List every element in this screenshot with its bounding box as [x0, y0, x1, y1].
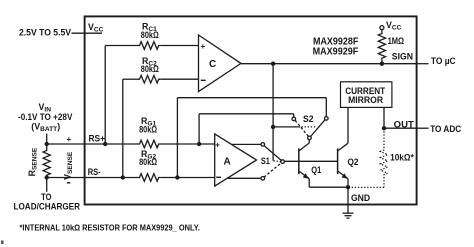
- svg-text:-0.1V TO +28V: -0.1V TO +28V: [18, 112, 73, 122]
- svg-text:GND: GND: [351, 193, 370, 203]
- svg-text:TO µC: TO µC: [431, 56, 456, 66]
- svg-text:SIGN: SIGN: [392, 52, 413, 62]
- resistor RG2: [138, 174, 161, 182]
- switch S2 dashed alternate: [295, 120, 308, 136]
- wire: RC2 left lead: [123, 78, 138, 80]
- VCC pullup circle terminal: [380, 26, 384, 30]
- switch S2 throw circle left: [292, 117, 296, 121]
- node RS+ / wire2: [197, 142, 201, 146]
- scan speck bottom-left: [1, 241, 4, 245]
- svg-text:OUT: OUT: [394, 120, 415, 130]
- wire: OUT to box edge: [384, 127, 416, 129]
- switch S2 pole circle: [308, 136, 312, 140]
- svg-text:+: +: [67, 135, 72, 144]
- wire: RC1 to amp C + input: [161, 45, 199, 47]
- svg-text:80kΩ: 80kΩ: [139, 125, 157, 135]
- dotted wire 10k to GND node: [350, 186, 385, 188]
- wire: RG2 to amp A - input: [161, 177, 215, 179]
- wire: SIGN lead outside box to uC: [416, 63, 429, 65]
- svg-text:1MΩ: 1MΩ: [388, 36, 405, 46]
- op-amp A: [215, 134, 257, 186]
- svg-text:LOAD/CHARGER: LOAD/CHARGER: [14, 201, 81, 211]
- svg-text:RS-: RS-: [88, 167, 101, 177]
- svg-text:A: A: [224, 157, 231, 168]
- Q1 emitter arrow: [303, 173, 309, 179]
- dotted control link to S1 pole: [274, 160, 281, 163]
- wire: RC2 to amp C - input: [161, 78, 199, 80]
- node VIN/RSENSE top: [45, 142, 49, 146]
- switch S2 throw circle right: [325, 117, 329, 121]
- node RS+ / RC1: [103, 142, 107, 146]
- wire: feedback RS- up to wire1: [176, 98, 178, 178]
- wire: RS- input wire: [47, 177, 138, 179]
- wire: amp A edge to S1 top throw: [232, 143, 262, 145]
- node SIGN / 1M: [380, 62, 384, 66]
- switch S2 blade (right throw to pole): [311, 120, 325, 137]
- svg-text:*INTERNAL 10kΩ RESISTOR FOR MA: *INTERNAL 10kΩ RESISTOR FOR MAX9929_ ONL…: [20, 223, 201, 233]
- resistor RC1: [138, 42, 161, 50]
- wire: control vertical from C output: [272, 64, 274, 161]
- svg-text:80kΩ: 80kΩ: [139, 157, 157, 167]
- transistor Q2: [337, 148, 339, 174]
- dotted control continuation S2: [302, 126, 317, 128]
- wire: RS+ node up to RC1: [104, 46, 106, 145]
- wire: S1 pole to Q1/Q2 bases: [284, 160, 337, 162]
- wire: amp A edge to S1 bottom throw: [228, 177, 261, 179]
- resistor RC2: [138, 75, 161, 83]
- switch S1 dashed alternate: [264, 163, 281, 177]
- svg-text:C: C: [209, 59, 216, 70]
- resistor RG1: [138, 140, 161, 148]
- svg-text:80kΩ: 80kΩ: [141, 30, 159, 40]
- wire: wire1 across to S2 right throw: [177, 97, 326, 99]
- op-amp C: [199, 35, 242, 92]
- ground symbol: [343, 212, 354, 214]
- resistor RSENSE (vertical): [43, 144, 50, 178]
- node C output / control: [271, 62, 275, 66]
- wire: control dot branch to S2: [273, 126, 300, 128]
- switch S1 blade (top throw to pole): [264, 146, 281, 161]
- wire: RS+ input wire: [47, 143, 138, 145]
- svg-text:RS+: RS+: [89, 134, 106, 144]
- resistor 1M (vertical): [378, 30, 385, 64]
- switch S1 throw circle bottom: [261, 177, 265, 181]
- wire: RG1 to amp A + input: [161, 143, 215, 145]
- node: VIN stub above RSENSE: [46, 134, 48, 144]
- wire: wire2 across to S2 left throw: [199, 113, 294, 115]
- svg-text:MIRROR: MIRROR: [348, 95, 383, 106]
- svg-text:2.5V TO 5.5V: 2.5V TO 5.5V: [19, 27, 71, 37]
- svg-text:Q1: Q1: [311, 165, 321, 175]
- wire: RS+ node up to wire2: [198, 114, 200, 144]
- wire: Q1 emitter to GND node: [309, 186, 348, 188]
- wire: GND node down through box: [347, 187, 349, 213]
- svg-text:S2: S2: [303, 114, 314, 124]
- amp A minus mark: [216, 176, 221, 178]
- Q2 emitter arrow: [342, 173, 348, 179]
- node RS- / RC2: [121, 175, 125, 179]
- node OUT: [382, 126, 386, 130]
- node RS- / feedback: [175, 175, 179, 179]
- switch S1 pole circle: [281, 160, 285, 164]
- transistor Q1: [298, 148, 300, 174]
- sense minus mark: [67, 182, 71, 184]
- node control branch: [271, 125, 275, 129]
- current mirror box: [341, 82, 392, 108]
- wire: OUT lead outside to ADC: [416, 127, 429, 129]
- amp C minus mark: [201, 79, 206, 81]
- svg-text:Q2: Q2: [348, 157, 359, 167]
- svg-text:MAX9929F: MAX9929F: [313, 47, 359, 58]
- svg-text:80kΩ: 80kΩ: [141, 64, 159, 74]
- switch S1 throw circle top: [261, 143, 265, 147]
- wire: VCC supply lead: [72, 32, 103, 34]
- wire: RSENSE bottom to load: [46, 178, 48, 192]
- resistor 10k dotted (vertical): [380, 128, 387, 187]
- svg-text:10kΩ*: 10kΩ*: [390, 152, 414, 162]
- wire: C output to SIGN and box edge: [241, 63, 416, 65]
- svg-text:+: +: [215, 141, 220, 150]
- wire: RC1 left lead: [105, 45, 137, 47]
- IC outline box: [85, 16, 417, 204]
- svg-text:+: +: [201, 42, 206, 51]
- svg-text:S1: S1: [261, 156, 270, 166]
- node GND: [346, 185, 350, 189]
- wire: RS- node up to RC2: [122, 79, 124, 177]
- node RSENSE bottom: [45, 175, 49, 179]
- wire: mirror right pin to OUT node: [383, 107, 385, 128]
- svg-text:TO ADC: TO ADC: [430, 124, 462, 134]
